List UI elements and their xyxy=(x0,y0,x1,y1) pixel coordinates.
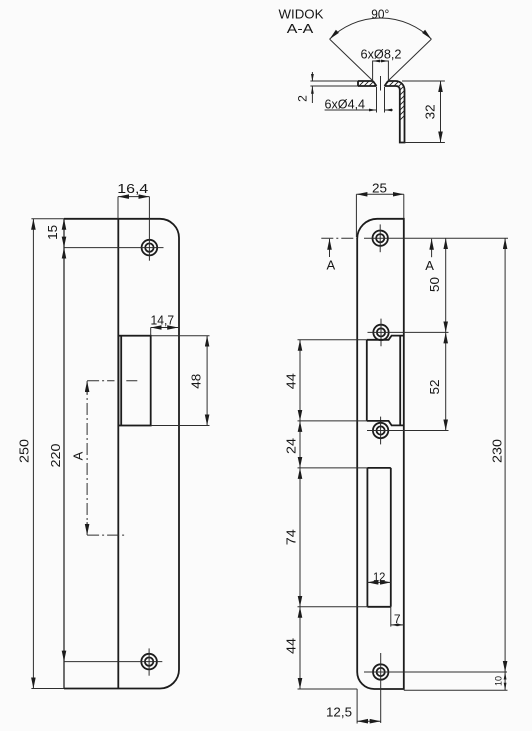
section hatching xyxy=(270,60,460,160)
dimension 44 upper xyxy=(298,339,367,341)
svg-text:2: 2 xyxy=(296,95,310,102)
svg-text:24: 24 xyxy=(284,438,299,454)
section mark A right view right xyxy=(431,239,433,257)
dimension 24 xyxy=(298,467,368,469)
svg-text:A: A xyxy=(71,451,86,460)
countersink cone line left xyxy=(330,39,373,81)
svg-text:220: 220 xyxy=(48,444,63,468)
svg-text:44: 44 xyxy=(284,373,299,389)
right view hole 1 xyxy=(373,231,388,246)
left view plate outline xyxy=(64,219,179,689)
section view: 90 degree arc xyxy=(330,18,432,39)
svg-text:WIDOK: WIDOK xyxy=(279,7,324,22)
svg-text:32: 32 xyxy=(423,104,438,119)
svg-text:12: 12 xyxy=(373,570,386,584)
dimension 74 xyxy=(298,606,368,608)
arc arrow right xyxy=(422,30,431,39)
dimension 12,5 xyxy=(356,689,358,724)
svg-text:50: 50 xyxy=(427,277,442,292)
svg-text:A-A: A-A xyxy=(287,21,314,36)
section hole axis tick xyxy=(380,76,382,91)
dimension 12 xyxy=(367,581,390,583)
dimension 50 xyxy=(445,238,447,332)
dimension 15 xyxy=(63,219,65,248)
right view plate outline xyxy=(357,219,404,689)
svg-text:A: A xyxy=(326,258,335,273)
svg-text:250: 250 xyxy=(17,439,32,463)
svg-text:12,5: 12,5 xyxy=(326,705,352,720)
svg-text:44: 44 xyxy=(284,638,299,654)
svg-text:A: A xyxy=(425,258,434,273)
dimension 7 xyxy=(391,624,404,626)
svg-text:25: 25 xyxy=(372,181,387,196)
dimension 230 xyxy=(504,238,506,672)
svg-text:74: 74 xyxy=(284,529,299,545)
dimension 16,4 xyxy=(117,197,119,219)
svg-text:10: 10 xyxy=(494,676,504,686)
dimension 10 xyxy=(404,689,508,691)
dimension 52 xyxy=(445,332,447,430)
countersink cone line right xyxy=(388,39,431,81)
dimension 14,7 xyxy=(150,328,152,336)
dimension 220 xyxy=(63,248,65,662)
left view cutout xyxy=(118,336,150,426)
right view hole 4 xyxy=(373,664,388,679)
svg-text:90°: 90° xyxy=(371,7,389,22)
svg-text:48: 48 xyxy=(188,374,203,389)
section mark A right view left xyxy=(329,239,331,257)
right view hole 3 xyxy=(373,423,388,438)
svg-text:14,7: 14,7 xyxy=(151,313,175,328)
left view left edge xyxy=(63,219,65,689)
dimension 44 lower xyxy=(298,688,358,690)
arc arrow left xyxy=(330,30,339,39)
dimension 250 xyxy=(31,218,64,220)
svg-text:6xØ4,4: 6xØ4,4 xyxy=(325,96,366,111)
dimension 32 (leg height) xyxy=(402,80,445,82)
right view lower cutout xyxy=(367,468,390,607)
svg-text:52: 52 xyxy=(427,380,442,395)
dimension 48 xyxy=(151,335,210,337)
right view hole 2 xyxy=(373,325,388,340)
svg-text:6xØ8,2: 6xØ8,2 xyxy=(361,47,402,62)
svg-text:16,4: 16,4 xyxy=(117,181,148,196)
section plate outline xyxy=(358,81,405,143)
svg-text:15: 15 xyxy=(45,225,60,240)
right view upper cutout xyxy=(367,336,404,426)
svg-text:230: 230 xyxy=(489,439,504,463)
left view top hole xyxy=(142,240,158,256)
dimension 25 xyxy=(355,194,357,237)
section line A-A left view xyxy=(86,383,88,533)
left view bottom hole xyxy=(141,654,157,670)
left view bend line xyxy=(117,219,119,689)
svg-text:7: 7 xyxy=(394,612,401,626)
dimension 2 (plate thickness) xyxy=(310,80,358,82)
